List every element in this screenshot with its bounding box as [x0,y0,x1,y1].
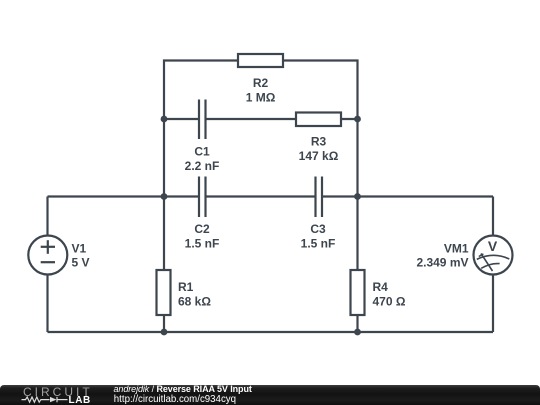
wire node1 to C1 [164,118,199,120]
junction node right-R3 [354,116,361,123]
label R3 value [299,134,339,163]
resistor R1 [157,270,171,315]
label C1 value [185,145,220,174]
footer bar [0,385,540,405]
credit text line 1 [114,384,252,394]
CircuitLab logo symbol [21,396,69,404]
wire R4 to bottom [356,314,358,332]
svg-text:1.5 nF: 1.5 nF [301,237,336,251]
CircuitLab logo LAB [69,396,91,405]
wire VM1 top lead [492,197,494,237]
svg-text:147 kΩ: 147 kΩ [299,149,339,163]
label C3 value [301,222,336,251]
wire bottom rail [48,331,494,333]
wire V1 bottom lead [46,275,48,333]
junction node left-bottom [161,329,168,336]
wire right rail mid [356,119,358,197]
wire C2 to C3 [206,195,316,197]
svg-text:1 MΩ: 1 MΩ [246,91,276,105]
svg-text:R4: R4 [373,280,389,294]
wire R3 to right rail [340,118,358,120]
label R4 value [373,280,406,309]
wire top-left corner [164,61,239,120]
label V1 value [72,241,90,269]
wire top-right corner [282,61,358,120]
CircuitLab logo word [23,386,93,398]
wire C1 to R3 [206,118,298,120]
credit text line 2 [114,395,236,405]
label R2 value [246,76,276,105]
wire R1 to bottom [163,314,165,332]
resistor R2 [238,54,283,67]
svg-text:C3: C3 [310,222,326,236]
capacitor C3 [316,177,323,218]
svg-text:V1: V1 [72,241,87,255]
svg-text:470 Ω: 470 Ω [373,295,406,309]
svg-text:2.2 nF: 2.2 nF [185,159,220,173]
svg-text:5 V: 5 V [72,256,90,270]
svg-text:R3: R3 [311,134,327,148]
label R1 value [178,280,211,309]
junction node right-bottom [354,329,361,336]
label VM1 value [416,241,468,269]
svg-text:R2: R2 [253,76,269,90]
voltmeter VM1 [474,236,513,275]
logo diode symbol [50,396,57,401]
wire C3 to VM1 rail [322,195,493,197]
svg-text:VM1: VM1 [444,241,469,255]
junction node left-C1 [161,116,168,123]
svg-text:R1: R1 [178,280,194,294]
wire V1 top lead [46,197,48,237]
svg-text:1.5 nF: 1.5 nF [185,237,220,251]
capacitor C2 [199,177,206,218]
logo resistor symbol [22,397,50,402]
svg-text:C2: C2 [194,222,210,236]
wire V1 to C2 [48,195,200,197]
wire left rail mid [163,119,165,197]
svg-text:V: V [488,238,498,254]
svg-text:2.349 mV: 2.349 mV [416,256,468,270]
voltage source V1 [28,236,67,275]
wire right rail to R4 [356,197,358,272]
capacitor C1 [199,100,206,140]
resistor R3 [296,113,341,127]
wire VM1 bottom lead [492,275,494,333]
svg-text:68 kΩ: 68 kΩ [178,295,211,309]
label C2 value [185,222,220,251]
resistor R4 [351,270,365,315]
junction node right-mid [354,193,361,200]
svg-text:C1: C1 [194,145,210,159]
wire left rail to R1 [163,197,165,272]
junction node left-mid [161,193,168,200]
